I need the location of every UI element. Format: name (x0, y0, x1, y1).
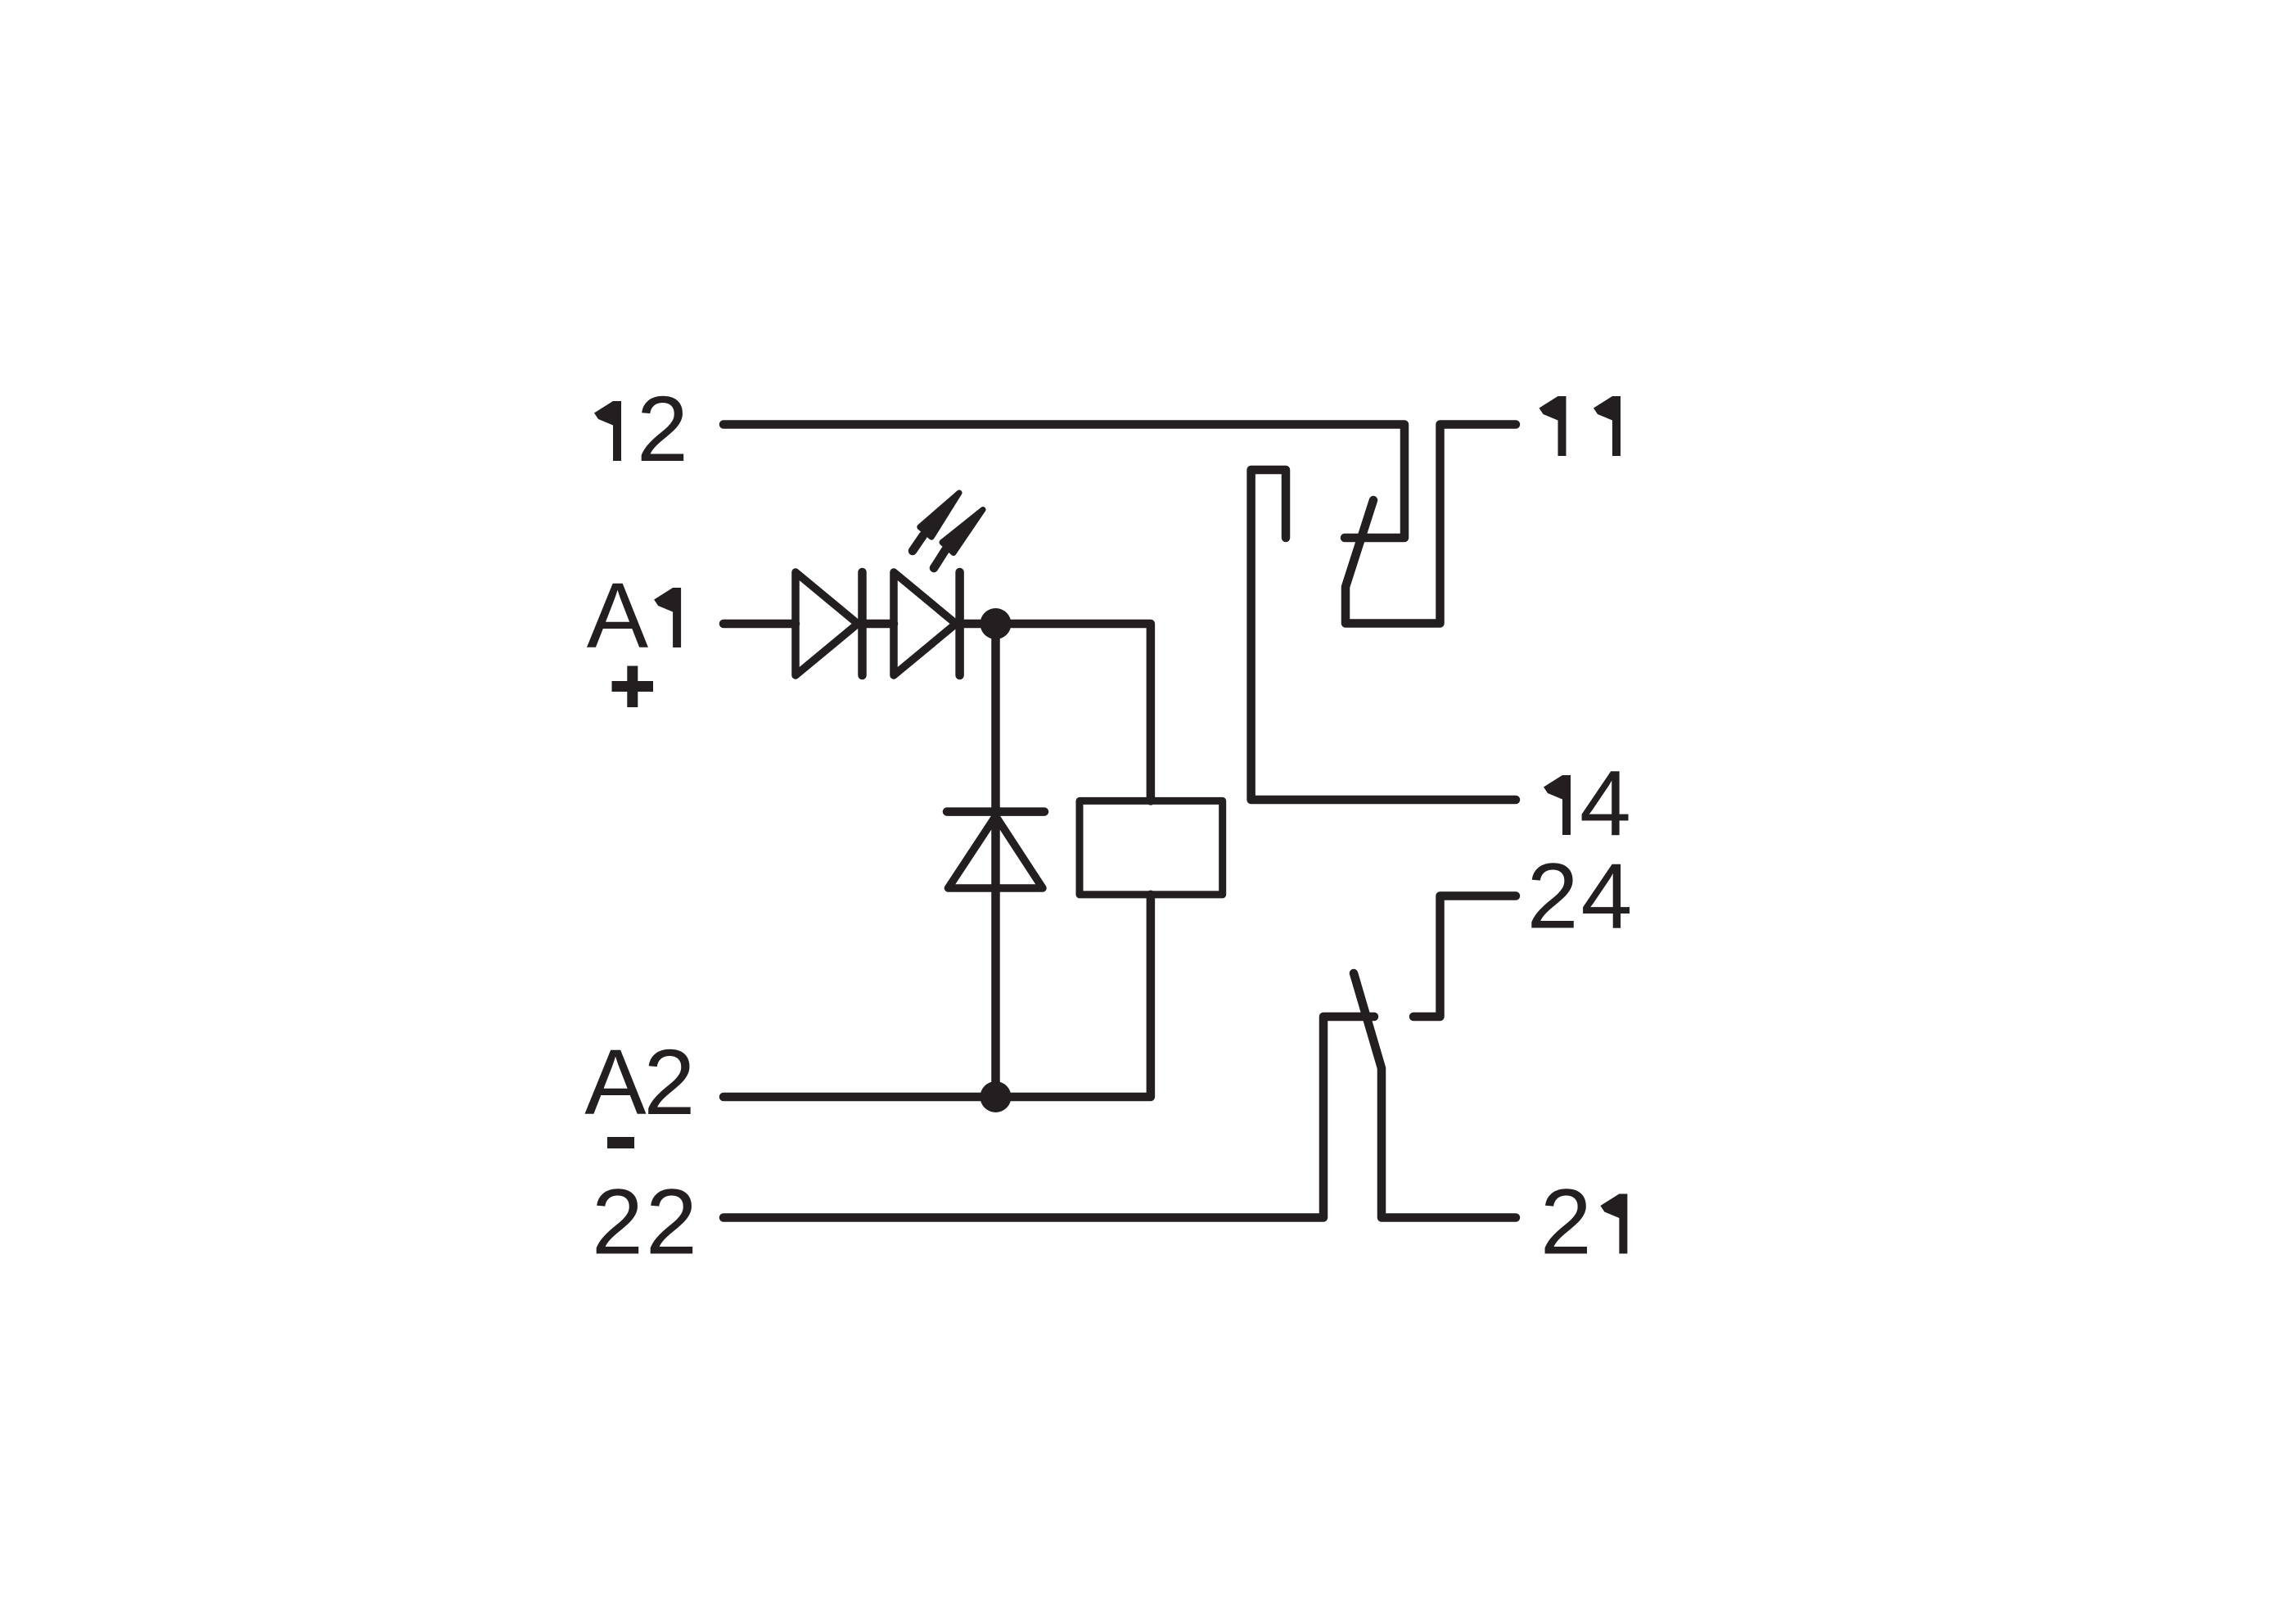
relay coil K1 (1080, 801, 1223, 895)
contact K2 blade and common 21 (1354, 973, 1516, 1218)
svg-text:4: 4 (1581, 845, 1633, 948)
suppressor diode D3 triangle (949, 816, 1044, 888)
suppressor diode D3 cathode bar (947, 807, 1044, 816)
svg-text:2: 2 (646, 1171, 697, 1274)
LED arrow 1 (920, 493, 959, 537)
wire D1 to LED (863, 620, 895, 629)
terminal label 12 (594, 401, 621, 461)
LED D2 triangle (894, 572, 956, 675)
diode D1 cathode bar (858, 572, 867, 675)
wire 22 to NC seat of K2 (724, 1017, 1374, 1218)
wire 14 with NO stub of K1 (1251, 470, 1516, 800)
svg-text:2: 2 (637, 377, 688, 480)
svg-text:A: A (587, 564, 649, 667)
svg-text:2: 2 (592, 1171, 643, 1274)
wire 12 to NC contact of K1 (724, 425, 1404, 539)
wire node A down to node B (991, 624, 1000, 1097)
svg-text:2: 2 (644, 1031, 696, 1134)
node B junction dot (980, 1081, 1012, 1112)
LED arrow 2 (942, 510, 983, 553)
contact K1 blade and common 11 (1346, 425, 1516, 624)
svg-text:A: A (584, 1031, 647, 1134)
wire A1 to diode D1 (724, 620, 796, 629)
terminal label 14 (1544, 775, 1571, 835)
wire 24 with NO stub of K2 (1413, 896, 1516, 1017)
node A junction dot (980, 608, 1012, 639)
terminal label 11 (1539, 396, 1566, 456)
LED D2 cathode bar (955, 572, 964, 675)
polarity plus (612, 666, 654, 708)
svg-text:4: 4 (1580, 751, 1631, 855)
wire node A to coil top (996, 624, 1151, 801)
svg-text:2: 2 (1540, 1171, 1592, 1274)
svg-text:2: 2 (1527, 845, 1579, 948)
wire coil bottom to A2 (724, 895, 1151, 1097)
diode D1 triangle (796, 572, 858, 675)
wire LED to node A (960, 620, 996, 629)
polarity minus (607, 1137, 634, 1148)
